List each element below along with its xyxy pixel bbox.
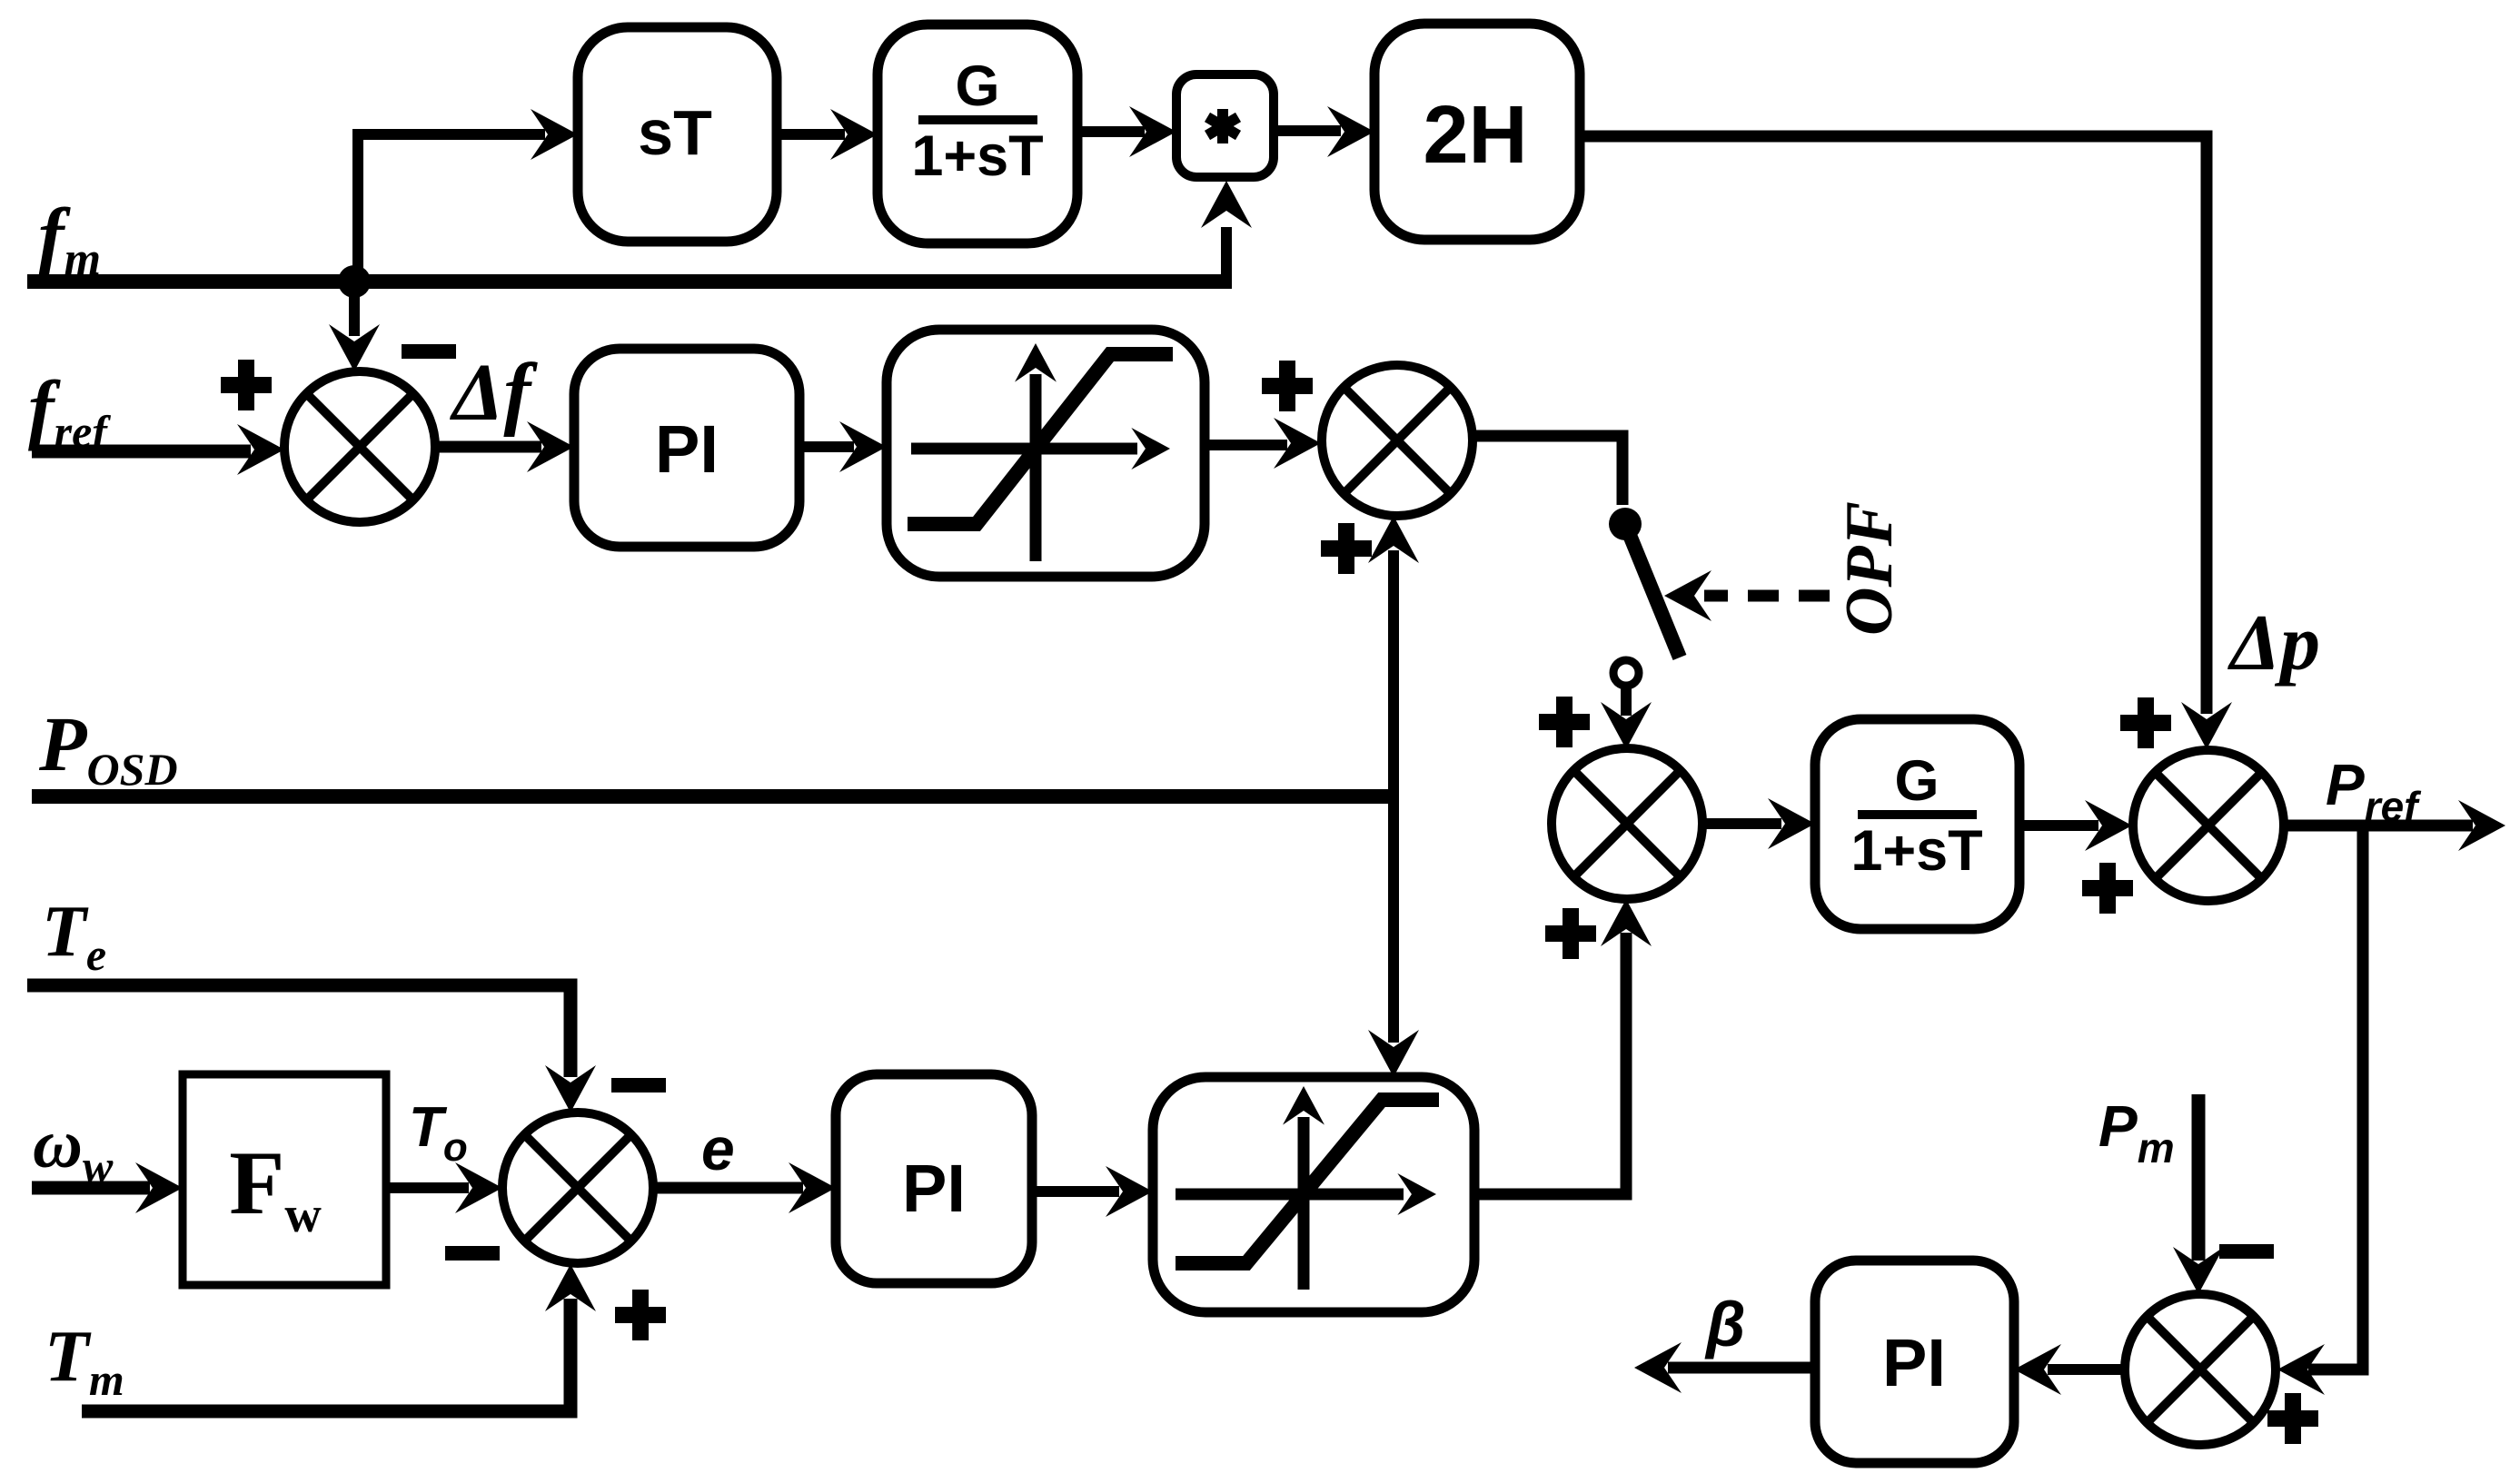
node minus at C1 top-right: [402, 344, 456, 359]
node switch pivot dot: [1609, 508, 1642, 540]
wire P_OSD rail: [32, 789, 1394, 804]
wire C1 to PI1: [435, 441, 541, 453]
svg-text:1+sT: 1+sT: [1850, 819, 1982, 883]
node plus at C4 left-bottom: [2082, 863, 2133, 914]
block PI2: [836, 1074, 1032, 1283]
node minus at C6 bottom-left: [445, 1246, 500, 1261]
block PI1: [574, 349, 799, 547]
wire C3 to G2: [1702, 818, 1781, 829]
wire omega into Fw: [32, 1181, 150, 1195]
node plus at C3 top-left: [1539, 697, 1590, 747]
node minus at C5 top-right: [2219, 1244, 2274, 1259]
node plus at C2 bottom-left: [1321, 523, 1372, 574]
wire T_e rail into C6: [27, 985, 570, 1077]
wire PI2 to sat2: [1032, 1186, 1119, 1197]
node minus at C6 top-right: [611, 1078, 666, 1092]
wire PI3 output beta: [1668, 1362, 1815, 1374]
sum C5: [2125, 1294, 2276, 1445]
wire C6 output e to PI2: [654, 1182, 803, 1194]
svg-text:β: β: [1704, 1289, 1745, 1359]
svg-text:OPF: OPF: [1832, 501, 1907, 636]
node plus at C6 bottom-right: [615, 1290, 666, 1340]
block * multiplier: [1176, 74, 1274, 177]
svg-text:1+sT: 1+sT: [911, 124, 1043, 188]
svg-text:Δp: Δp: [2227, 599, 2320, 687]
switch open terminal: [1613, 660, 1639, 686]
wire sT to G1: [777, 129, 845, 140]
sum C2: [1322, 365, 1473, 516]
wire Fw to C6: [386, 1182, 469, 1193]
sum C3: [1552, 748, 1702, 899]
block 2H: [1374, 24, 1580, 240]
wire 2H to C4 (delta p drop): [1580, 136, 2207, 714]
block PI3: [1815, 1261, 2014, 1463]
wire terminal to C3: [1621, 687, 1632, 716]
wire G1 to *: [1077, 126, 1145, 137]
wire fm rail: [27, 274, 1232, 289]
switch arm: [1625, 524, 1680, 657]
node plus at C2 left-top: [1262, 361, 1313, 411]
wire PI1 to sat1: [799, 441, 854, 452]
node junction dot on fm rail: [338, 265, 371, 298]
wire * to 2H: [1274, 125, 1341, 136]
wire C4 output P_ref: [2284, 820, 2473, 832]
sum C1: [284, 371, 435, 522]
block Fw: [183, 1074, 386, 1285]
block sat2 limiter: [1153, 1077, 1474, 1312]
svg-text:G: G: [955, 54, 999, 118]
svg-text:G: G: [1894, 749, 1939, 813]
OPF dashed arrow: [1704, 590, 1830, 602]
block G1 G/(1+sT): [878, 25, 1077, 243]
node plus at C5 right: [2267, 1393, 2318, 1444]
sum C4: [2133, 750, 2284, 901]
node plus at C4 top: [2120, 697, 2171, 748]
wire riser P_OSD up to C2: [1388, 550, 1399, 796]
sum C6: [502, 1112, 653, 1263]
wire riser P_OSD down to sat2: [1388, 796, 1399, 1043]
svg-text:e: e: [701, 1115, 735, 1182]
svg-text:PI: PI: [1882, 1325, 1946, 1400]
wire P_m into C5: [2192, 1094, 2206, 1261]
node plus at C1 left-top: [221, 360, 272, 410]
wire fm up to sT: [358, 134, 545, 282]
wire fm riser to * block: [1221, 227, 1232, 283]
svg-text:2H: 2H: [1423, 90, 1527, 181]
svg-text:sT: sT: [638, 97, 712, 168]
wire C2 to switch: [1473, 436, 1622, 505]
wire sat1 to C2: [1205, 440, 1287, 450]
svg-text:Δf: Δf: [450, 348, 538, 438]
wire sat2 to C3: [1474, 933, 1626, 1194]
wire C5 to PI3: [2048, 1364, 2124, 1375]
wire P_ref feedback down to C5: [2308, 826, 2363, 1369]
wire fm down into C1: [349, 283, 360, 336]
wire fref into C1: [32, 445, 251, 459]
svg-text:PI: PI: [655, 411, 719, 487]
block G2 G/(1+sT): [1815, 719, 2019, 929]
wire T_m rail into C6: [82, 1299, 570, 1411]
block sat1 limiter: [887, 330, 1205, 577]
wire G2 to C4: [2019, 820, 2098, 831]
block sT: [578, 27, 777, 242]
svg-text:PI: PI: [902, 1151, 966, 1226]
node plus at C3 bottom-left: [1545, 908, 1596, 959]
